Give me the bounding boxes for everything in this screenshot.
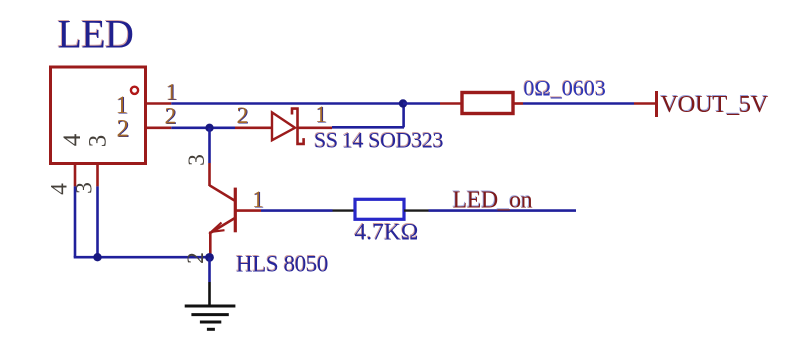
svg-text:2: 2 — [117, 115, 130, 142]
wire to VOUT terminal (blue) — [523, 102, 634, 105]
transistor Q1 base bar — [234, 188, 237, 233]
ground bar 1 — [185, 305, 236, 308]
svg-text:VOUT_5V: VOUT_5V — [661, 91, 769, 118]
svg-text:2: 2 — [183, 252, 209, 264]
wire to diode anode (red) — [235, 127, 272, 130]
transistor Q1 collector diagonal — [210, 185, 235, 200]
transistor Q1 collector lead (red) — [208, 163, 211, 186]
svg-text:HLS 8050: HLS 8050 — [236, 252, 328, 277]
wire LED_on net (blue) — [429, 209, 577, 212]
junction dot pin3/pin4 node — [93, 253, 101, 261]
diode D1 SS14 triangle — [272, 112, 295, 140]
wire R2 right lead (black) — [404, 209, 429, 211]
wire R1 right lead (red) — [513, 102, 523, 105]
svg-text:3: 3 — [184, 154, 210, 166]
svg-text:2: 2 — [237, 103, 249, 129]
pin 3 stub (red, bottom) — [96, 164, 99, 187]
wire pin3 down (blue) — [96, 186, 99, 257]
wire VOUT stub (red) — [634, 102, 657, 105]
junction dot emitter node — [205, 253, 214, 262]
svg-text:1: 1 — [166, 80, 178, 106]
wire net pin1 to junction (blue) — [171, 102, 403, 105]
svg-text:1: 1 — [315, 102, 327, 128]
wire pin2 to diode (blue) — [171, 127, 235, 130]
svg-text:4: 4 — [47, 183, 73, 195]
wire collector drop (blue) — [208, 128, 211, 163]
wire diode cathode out (red) — [298, 127, 333, 130]
wire pin4 down (blue) — [74, 186, 77, 257]
connector J1 box — [51, 67, 146, 164]
ground bar 4 — [207, 328, 215, 331]
svg-text:SS 14 SOD323: SS 14 SOD323 — [314, 128, 444, 153]
wire riser to top net (blue) — [402, 104, 405, 128]
pin 1 stub (red) — [146, 102, 172, 105]
ground bar 3 — [200, 321, 221, 324]
transistor Q1 emitter arrow — [211, 223, 224, 232]
junction dot node VOUT branch — [399, 99, 407, 107]
ground bar 2 — [191, 313, 228, 316]
wire junction to R1 (blue) — [403, 102, 440, 105]
resistor R1 0 ohm body — [462, 93, 513, 114]
resistor R2 4.7K body — [355, 199, 404, 219]
diode cathode schottky bar — [292, 109, 304, 144]
pin 2 stub (red) — [146, 127, 172, 130]
svg-text:LED: LED — [58, 12, 134, 57]
svg-text:0Ω_0603: 0Ω_0603 — [524, 76, 606, 101]
svg-text:1: 1 — [252, 187, 264, 213]
wire base to R2 (blue) — [261, 209, 333, 212]
port VOUT_5V terminal bar — [655, 91, 658, 117]
wire R1 left lead (red) — [440, 102, 462, 105]
svg-text:3: 3 — [85, 135, 112, 148]
wire diode out horizontal (blue) — [332, 126, 404, 129]
transistor Q1 emitter diagonal — [211, 218, 235, 232]
pin 4 stub (red, bottom) — [74, 164, 77, 187]
transistor Q1 emitter lead (red) — [209, 232, 212, 258]
svg-text:4.7KΩ: 4.7KΩ — [355, 220, 419, 246]
wire bottom horizontal (blue) — [74, 256, 210, 259]
svg-text:4: 4 — [59, 133, 86, 146]
wire emitter to ground (blue) — [208, 257, 211, 282]
ground stem (black) — [208, 282, 211, 306]
pin 1 indicator ring — [131, 87, 138, 94]
svg-text:2: 2 — [165, 103, 177, 129]
svg-text:LED_on: LED_on — [453, 188, 533, 214]
transistor base lead (red) — [237, 209, 262, 212]
junction dot node base/pin2 — [205, 124, 213, 132]
wire R2 left lead (black) — [333, 209, 356, 211]
